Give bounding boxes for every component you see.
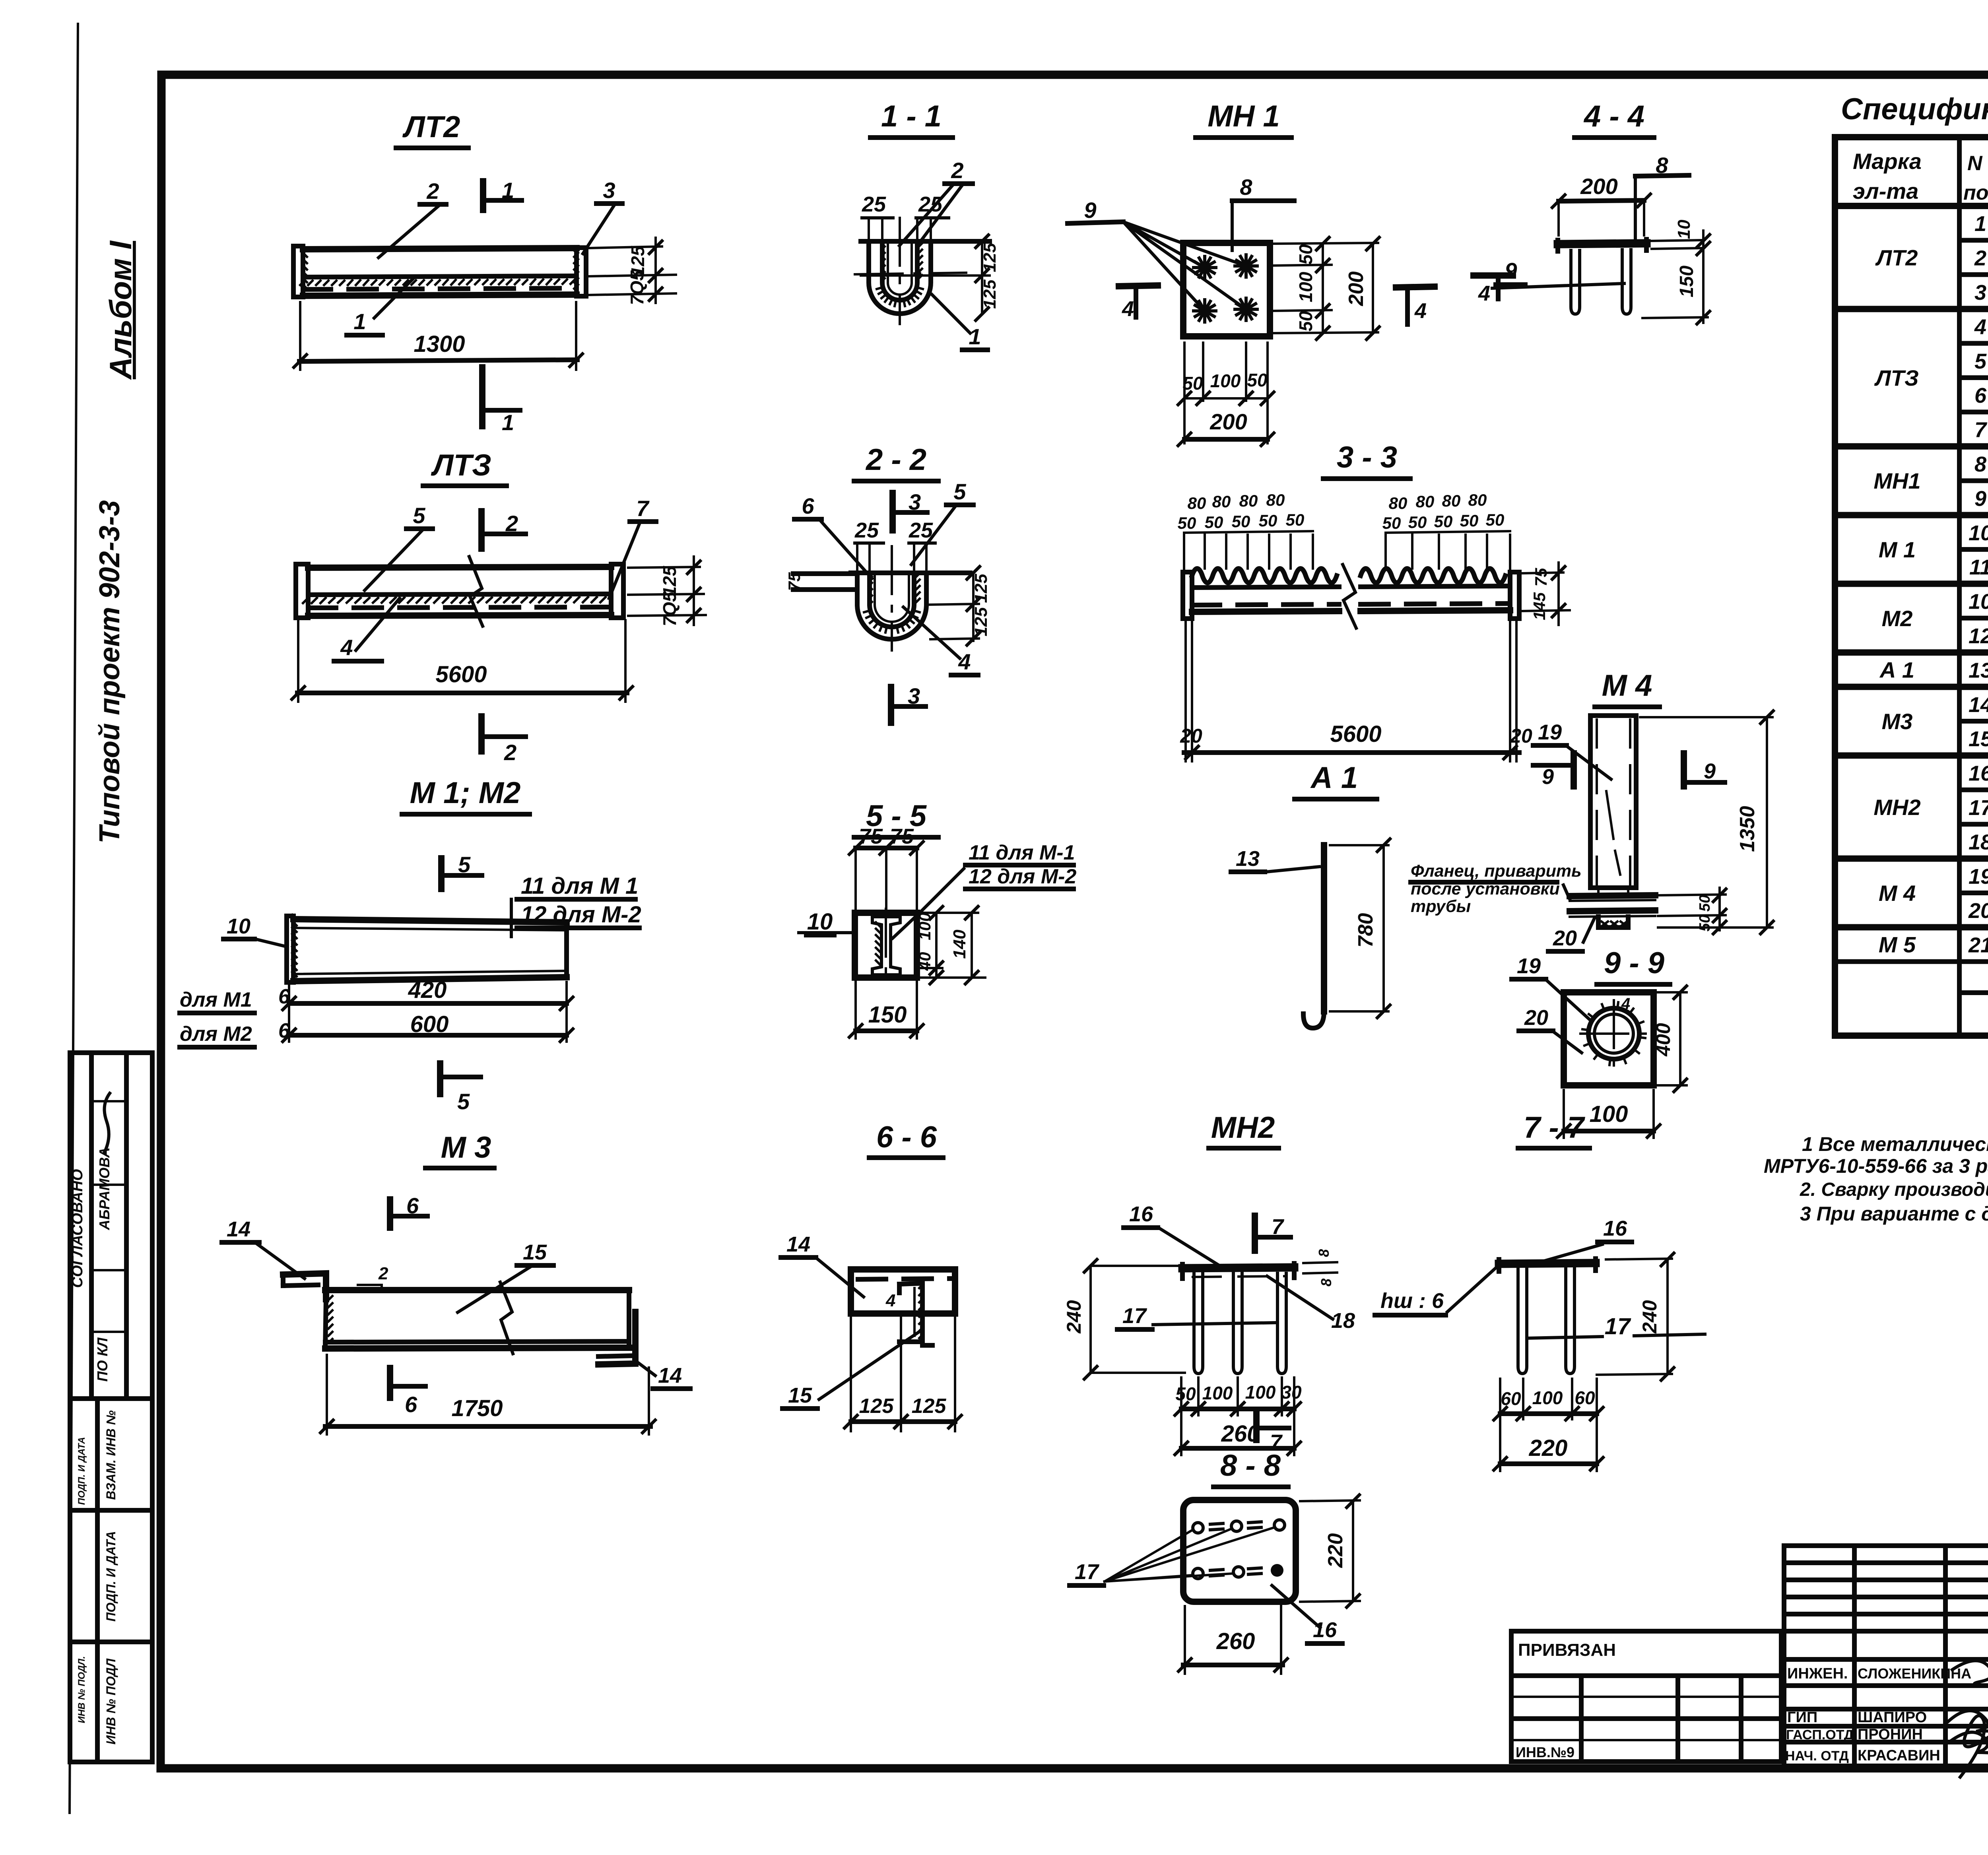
svg-text:50: 50: [1295, 311, 1316, 332]
svg-text:25: 25: [854, 518, 879, 542]
svg-text:М 1: М 1: [1879, 537, 1916, 562]
svg-text:20: 20: [1968, 899, 1988, 923]
8-8 right dim 220: [1300, 1500, 1360, 1501]
svg-text:2: 2: [505, 511, 518, 536]
LT2 right dim 125 / 72,5: [588, 246, 662, 248]
svg-text:поз.: поз.: [1963, 181, 1988, 204]
svg-text:17: 17: [1969, 796, 1988, 820]
svg-text:50: 50: [1408, 513, 1427, 532]
svg-text:1 Все металлические марки кро: 1 Все металлические марки кроме МН1,МН2,…: [1802, 1133, 1988, 1155]
svg-text:400: 400: [1652, 1023, 1674, 1057]
svg-text:50: 50: [1434, 512, 1453, 531]
svg-text:ШАПИРО: ШАПИРО: [1858, 1709, 1927, 1726]
svg-text:100: 100: [1532, 1387, 1563, 1408]
svg-text:Фланец, приварить: Фланец, приварить: [1411, 862, 1582, 881]
spec table column lines: [1957, 137, 1962, 1036]
svg-text:для М1: для М1: [180, 988, 252, 1011]
5-5 plate: [855, 913, 917, 978]
svg-text:50: 50: [1460, 511, 1479, 530]
svg-text:7: 7: [1272, 1215, 1285, 1239]
2-2 section mark 3 top: [889, 493, 896, 530]
svg-text:2: 2: [504, 740, 516, 765]
svg-text:14: 14: [786, 1232, 810, 1256]
svg-text:4: 4: [885, 1291, 895, 1310]
svg-text:13: 13: [1236, 847, 1260, 871]
svg-text:80: 80: [1212, 492, 1231, 511]
svg-text:1750: 1750: [451, 1395, 503, 1421]
MN1 right dims 50 100 50 / 200: [1272, 243, 1378, 244]
svg-text:3 - 3: 3 - 3: [1337, 440, 1397, 474]
svg-text:80: 80: [1188, 494, 1206, 512]
svg-text:16: 16: [1313, 1618, 1337, 1642]
svg-text:240: 240: [1639, 1300, 1661, 1334]
svg-text:МН1: МН1: [1873, 468, 1920, 493]
LT2 section mark 1 top: [480, 181, 486, 210]
svg-text:21: 21: [1968, 933, 1988, 957]
svg-text:ЛТ2: ЛТ2: [1875, 245, 1918, 270]
signatures squiggles: [1952, 1661, 1988, 1686]
svg-text:8: 8: [1240, 175, 1252, 200]
7-7 legs: [1518, 1268, 1527, 1374]
privyazan block: [1511, 1631, 1781, 1762]
svg-text:4: 4: [1478, 281, 1490, 305]
svg-text:ПОДП. И ДАТА: ПОДП. И ДАТА: [76, 1437, 87, 1505]
svg-text:3 При варианте с доочисткой п: 3 При варианте с доочисткой поз.7, 8 ЛТЗ…: [1800, 1203, 1988, 1225]
7-7 dim 220: [1500, 1461, 1597, 1466]
svg-text:ПО КЛ: ПО КЛ: [94, 1337, 111, 1382]
svg-text:12 для М-2: 12 для М-2: [969, 865, 1076, 888]
LT2 section mark 1 bottom: [479, 367, 485, 426]
svg-text:3: 3: [603, 178, 615, 203]
svg-text:100: 100: [1590, 1101, 1628, 1127]
svg-text:1: 1: [502, 178, 514, 203]
M3 break mark: [500, 1282, 513, 1354]
svg-text:6: 6: [405, 1392, 417, 1417]
MN2 weld dims 8/8: [1303, 1262, 1337, 1263]
svg-text:260: 260: [1216, 1628, 1255, 1654]
svg-text:1: 1: [969, 324, 981, 349]
svg-text:3: 3: [908, 683, 920, 708]
svg-text:50: 50: [1295, 244, 1316, 265]
LT3 dim 5600: [297, 620, 299, 702]
svg-text:20: 20: [1510, 725, 1532, 747]
svg-text:1: 1: [1974, 212, 1986, 236]
svg-text:2: 2: [951, 158, 963, 183]
1-1 centerline: [899, 218, 901, 324]
svg-text:ГИП: ГИП: [1787, 1709, 1817, 1726]
spec table thin row lines: [1959, 238, 1988, 243]
svg-text:9: 9: [1542, 765, 1554, 789]
svg-text:МН2: МН2: [1211, 1111, 1275, 1145]
svg-text:А 1: А 1: [1879, 657, 1914, 682]
svg-text:80: 80: [1239, 491, 1258, 510]
svg-text:1: 1: [502, 410, 514, 435]
svg-text:5600: 5600: [1330, 721, 1381, 747]
svg-text:9: 9: [1704, 759, 1716, 783]
svg-text:19: 19: [1969, 865, 1988, 889]
svg-text:125: 125: [971, 574, 991, 603]
svg-text:17: 17: [1122, 1304, 1147, 1328]
svg-text:3: 3: [909, 489, 921, 514]
svg-text:Спецификация металла на 1 шт: Спецификация металла на 1 шт. каждой мар…: [1841, 92, 1988, 126]
svg-text:ПРОНИН: ПРОНИН: [1858, 1726, 1923, 1743]
svg-text:50: 50: [1175, 1383, 1196, 1404]
svg-text:40: 40: [915, 952, 934, 971]
svg-text:8 - 8: 8 - 8: [1220, 1449, 1281, 1482]
svg-text:200: 200: [1345, 272, 1368, 307]
svg-text:5: 5: [458, 852, 471, 877]
5-5 dim 150: [854, 980, 857, 1038]
svg-text:12: 12: [1969, 624, 1988, 648]
svg-text:М 4: М 4: [1602, 669, 1652, 702]
3-3 top tick lines left group: [1183, 535, 1185, 569]
svg-text:19: 19: [1517, 954, 1541, 978]
svg-text:125: 125: [980, 243, 1000, 272]
svg-text:8: 8: [1316, 1249, 1332, 1257]
svg-text:6: 6: [802, 493, 814, 518]
MN2 anchor legs: [1194, 1273, 1203, 1374]
svg-text:9: 9: [1505, 258, 1517, 283]
M4 flange: [1570, 895, 1655, 896]
svg-text:КРАСАВИН: КРАСАВИН: [1858, 1747, 1940, 1764]
svg-text:125: 125: [859, 1395, 894, 1418]
9-9 right dim 400: [1658, 991, 1687, 993]
svg-text:50: 50: [1205, 513, 1223, 532]
2-2 section mark 3 bottom: [888, 687, 894, 723]
svg-text:6: 6: [278, 1019, 290, 1042]
svg-text:14: 14: [1969, 693, 1988, 717]
svg-text:60: 60: [1501, 1388, 1521, 1409]
svg-text:20: 20: [1180, 725, 1202, 747]
M4 section mark 9 left: [1533, 763, 1574, 768]
M4 pipe: [1590, 716, 1636, 888]
svg-text:МН2: МН2: [1873, 795, 1920, 820]
title block signature columns: [1784, 1546, 1988, 1766]
svg-text:100: 100: [1210, 371, 1241, 391]
svg-text:9 - 9: 9 - 9: [1604, 946, 1664, 980]
4-4 T shape plate: [1558, 243, 1646, 244]
svg-text:М 4: М 4: [1879, 881, 1916, 906]
M3 dim 1750: [326, 1355, 328, 1434]
svg-text:80: 80: [1416, 492, 1435, 511]
spec table group separator lines: [1835, 306, 1988, 312]
svg-text:100: 100: [1245, 1382, 1276, 1403]
svg-text:5: 5: [413, 503, 425, 528]
svg-text:Марка: Марка: [1853, 149, 1922, 174]
MN2 dim 240 left: [1091, 1265, 1182, 1267]
svg-text:6: 6: [406, 1193, 419, 1218]
svg-text:50: 50: [1486, 510, 1505, 529]
svg-text:50: 50: [1382, 514, 1401, 532]
A1 dim 780: [1330, 844, 1388, 846]
LT2 dim 1300: [299, 302, 301, 370]
svg-text:после установки: после установки: [1411, 879, 1560, 898]
svg-text:4: 4: [340, 635, 353, 660]
svg-text:11: 11: [1969, 555, 1988, 579]
MN1 section mark 4 right: [1396, 287, 1435, 287]
svg-text:ЛТЗ: ЛТЗ: [431, 448, 491, 482]
MN2 bottom dims 50 100 100 30: [1180, 1378, 1182, 1455]
8-8 holes row 2: [1193, 1568, 1203, 1579]
svg-text:Типовой проект 902-3-3: Типовой проект 902-3-3: [94, 500, 126, 844]
svg-text:18: 18: [1969, 830, 1988, 854]
svg-text:240: 240: [1063, 1300, 1085, 1334]
svg-text:200: 200: [1580, 174, 1617, 199]
1-1 right dims: [981, 241, 983, 314]
svg-text:ИНВ.№9: ИНВ.№9: [1516, 1744, 1574, 1760]
svg-text:15: 15: [788, 1383, 812, 1407]
1-1 channel U cross-section: [869, 241, 931, 314]
svg-text:10: 10: [807, 909, 833, 935]
MN1 plate: [1183, 243, 1270, 336]
svg-text:ПРИВЯЗАН: ПРИВЯЗАН: [1518, 1640, 1616, 1660]
3-3 corrugated bar: [1183, 572, 1192, 619]
svg-text:8: 8: [1974, 452, 1986, 476]
svg-text:200: 200: [1209, 409, 1247, 434]
svg-text:220: 220: [1529, 1435, 1568, 1461]
svg-text:1 - 1: 1 - 1: [881, 99, 942, 133]
svg-text:220: 220: [1324, 1533, 1347, 1568]
svg-text:80: 80: [1389, 494, 1408, 512]
3-3 top tick lines right group: [1384, 535, 1387, 569]
svg-text:420: 420: [408, 977, 447, 1003]
svg-text:13: 13: [1969, 658, 1988, 682]
LT2 bar: pipe with flats: [293, 246, 303, 297]
MN2 section mark 7 bottom: [1253, 1414, 1260, 1440]
M4 small dims 50 50: [1658, 895, 1726, 895]
svg-text:20: 20: [1553, 926, 1577, 950]
svg-text:2 - 2: 2 - 2: [865, 443, 926, 477]
3-3 right dims 75/145: [1523, 572, 1563, 573]
svg-text:2. Сварку производить электрод: 2. Сварку производить электродами типа Э…: [1800, 1179, 1988, 1200]
svg-text:ЛТ2: ЛТ2: [402, 110, 460, 144]
4-4 section mark 4 left: [1474, 272, 1513, 279]
svg-text:5: 5: [953, 479, 966, 504]
svg-text:50: 50: [1697, 895, 1713, 912]
svg-text:2: 2: [378, 1264, 388, 1283]
svg-text:50: 50: [1178, 514, 1196, 532]
5-5 I-beam section: [872, 917, 900, 975]
M1M2 section mark 5 top: [438, 858, 445, 889]
9-9 square plate: [1564, 992, 1654, 1085]
svg-text:ИНВ № ПОДЛ.: ИНВ № ПОДЛ.: [76, 1656, 87, 1723]
3-3 break mark: [1343, 565, 1356, 628]
MN1 bottom dims 50 100 50 / 200: [1183, 343, 1186, 443]
7-7 bottom dims 60 100 60: [1499, 1379, 1501, 1471]
M3 channel with end angles: [283, 1273, 326, 1299]
svg-text:15: 15: [1969, 727, 1988, 751]
8-8 holes row 1: [1193, 1523, 1203, 1533]
svg-text:125: 125: [971, 607, 991, 636]
svg-text:1350: 1350: [1736, 806, 1759, 852]
MN1 section mark 4 left: [1119, 285, 1158, 286]
svg-text:60: 60: [1574, 1387, 1595, 1408]
svg-text:19: 19: [1538, 720, 1562, 744]
svg-text:9: 9: [1084, 198, 1096, 223]
MN1 anchor bursts: [1194, 256, 1216, 279]
9-9 dim 100: [1563, 1090, 1565, 1138]
svg-text:25: 25: [862, 192, 886, 216]
svg-text:7Q5: 7Q5: [627, 270, 647, 305]
svg-text:А 1: А 1: [1310, 761, 1358, 795]
svg-text:780: 780: [1354, 913, 1377, 948]
svg-text:N: N: [1967, 152, 1983, 175]
svg-text:2: 2: [426, 179, 439, 204]
svg-text:6: 6: [278, 985, 290, 1008]
svg-text:600: 600: [410, 1011, 449, 1037]
svg-text:НАЧ. ОТД: НАЧ. ОТД: [1785, 1748, 1849, 1764]
svg-text:150: 150: [868, 1002, 907, 1028]
svg-text:1300: 1300: [414, 331, 465, 357]
approval stamp table (bottom left margin): [70, 1053, 152, 1762]
LT3 section mark 2 top: [478, 511, 485, 549]
svg-text:6: 6: [1974, 384, 1987, 407]
svg-text:СОГЛАСОВАНО: СОГЛАСОВАНО: [69, 1169, 86, 1288]
svg-text:МРТУ6-10-559-66 за 3 раза; М: МРТУ6-10-559-66 за 3 раза; М 5,МН1 и МН2…: [1764, 1155, 1988, 1177]
svg-text:80: 80: [1442, 491, 1461, 510]
svg-text:30: 30: [1281, 1382, 1302, 1403]
svg-text:10: 10: [1674, 219, 1694, 239]
svg-text:17: 17: [1075, 1560, 1100, 1584]
M3 section mark 6 bottom: [387, 1368, 393, 1398]
svg-text:100: 100: [915, 912, 934, 940]
svg-text:25: 25: [909, 518, 933, 542]
svg-text:50: 50: [1259, 511, 1277, 530]
svg-text:17: 17: [1605, 1314, 1631, 1339]
svg-text:М 3: М 3: [441, 1131, 491, 1164]
svg-text:16: 16: [1969, 762, 1988, 786]
svg-text:8: 8: [1318, 1279, 1334, 1286]
svg-text:7: 7: [1974, 418, 1988, 442]
6-6 plate: [851, 1269, 955, 1314]
M4 right dim 1350: [1640, 716, 1773, 718]
svg-text:150: 150: [1676, 266, 1697, 297]
svg-text:Альбом I: Альбом I: [103, 241, 138, 380]
svg-text:18: 18: [1331, 1309, 1355, 1333]
2-2 centerline: [891, 546, 893, 650]
svg-text:3: 3: [1974, 281, 1986, 305]
svg-text:75: 75: [890, 825, 914, 848]
6-6 dims 125 125: [850, 1318, 852, 1431]
svg-text:5: 5: [457, 1089, 470, 1114]
svg-text:50: 50: [1697, 915, 1713, 931]
svg-text:5: 5: [1974, 349, 1987, 373]
svg-text:7Q5: 7Q5: [659, 591, 680, 626]
svg-text:2: 2: [1974, 246, 1986, 270]
svg-text:АБРАМОВА: АБРАМОВА: [96, 1147, 113, 1230]
svg-text:М2: М2: [1882, 606, 1913, 631]
svg-text:МН 1: МН 1: [1208, 99, 1280, 133]
svg-text:75: 75: [1532, 568, 1550, 586]
svg-text:50: 50: [1232, 512, 1250, 531]
svg-text:ИНВ № ПОДЛ: ИНВ № ПОДЛ: [104, 1658, 118, 1744]
9-9 pipe circle: [1588, 1008, 1639, 1059]
svg-text:100: 100: [1295, 272, 1316, 302]
M1M2 channel bar: [287, 916, 293, 982]
svg-text:9: 9: [1974, 487, 1986, 510]
8-8 plate: [1183, 1500, 1296, 1602]
svg-text:ПОДП. И ДАТА: ПОДП. И ДАТА: [104, 1531, 118, 1622]
4-4 right dims 10 / 150: [1652, 240, 1702, 241]
svg-text:4: 4: [1974, 315, 1986, 339]
svg-text:14: 14: [658, 1364, 682, 1387]
svg-text:11 для М 1: 11 для М 1: [521, 873, 638, 899]
LT3 right dim: [628, 567, 700, 568]
LT3 section mark 2 bottom: [478, 716, 485, 751]
svg-text:11 для М-1: 11 для М-1: [969, 841, 1075, 864]
svg-text:75: 75: [785, 572, 804, 591]
4-4 legs: [1571, 250, 1580, 314]
svg-text:100: 100: [1202, 1383, 1233, 1403]
svg-text:трубы: трубы: [1411, 897, 1471, 916]
MN2 top plate: [1182, 1267, 1294, 1268]
svg-text:80: 80: [1468, 491, 1487, 509]
svg-text:4 - 4: 4 - 4: [1583, 99, 1644, 133]
M1M2 section mark 5 bottom: [437, 1063, 443, 1094]
LT3 bar: [296, 564, 308, 618]
8-8 dim 260: [1184, 1606, 1186, 1674]
svg-text:14: 14: [227, 1217, 250, 1241]
2-2 right dims: [929, 604, 979, 605]
A1 rod with hook: [1321, 845, 1327, 1011]
3-3 dim 5600: [1184, 620, 1187, 761]
svg-text:16: 16: [1603, 1217, 1627, 1240]
2-2 channel U with plate: [857, 573, 926, 639]
svg-text:1: 1: [353, 309, 366, 334]
M4 section mark 9 right: [1681, 753, 1687, 786]
spec table header lines: [1835, 203, 1988, 209]
svg-text:50: 50: [1286, 510, 1305, 529]
svg-text:эл-та: эл-та: [1853, 179, 1918, 204]
svg-text:10: 10: [1969, 521, 1988, 545]
svg-text:4: 4: [1621, 995, 1630, 1013]
svg-text:ГАСП.ОТД: ГАСП.ОТД: [1786, 1727, 1854, 1742]
svg-text:6 - 6: 6 - 6: [876, 1120, 937, 1154]
svg-text:80: 80: [1266, 491, 1285, 509]
2-2 left plate 75: [793, 571, 857, 576]
svg-text:10: 10: [1969, 590, 1988, 614]
LT3 break mark: [469, 557, 483, 626]
svg-text:ЛТЗ: ЛТЗ: [1874, 365, 1919, 390]
7-7 right dim 240: [1606, 1259, 1672, 1259]
svg-text:50: 50: [1247, 370, 1268, 390]
svg-text:для М2: для М2: [180, 1023, 252, 1046]
svg-text:125: 125: [980, 279, 1000, 309]
M1M2 dim 420 (dlya M1): [288, 986, 290, 1042]
svg-text:25: 25: [918, 192, 943, 216]
svg-text:7 - 7: 7 - 7: [1524, 1111, 1586, 1145]
svg-text:260: 260: [1221, 1421, 1260, 1447]
svg-text:16: 16: [1129, 1202, 1153, 1226]
svg-text:hш : 6: hш : 6: [1380, 1289, 1444, 1313]
spec table outer border: [1835, 137, 1988, 1036]
5-5 centerline: [885, 909, 887, 984]
svg-text:7: 7: [636, 496, 650, 521]
5-5 right dims 100/40/140: [919, 912, 978, 914]
svg-text:4: 4: [1122, 297, 1134, 321]
M1M2 dim 600 (dlya M2): [289, 1033, 567, 1038]
svg-text:М 1; М2: М 1; М2: [410, 776, 521, 810]
7-7 plate: [1499, 1263, 1596, 1264]
svg-text:ИНЖЕН.: ИНЖЕН.: [1787, 1665, 1848, 1682]
svg-text:140: 140: [950, 929, 969, 959]
svg-text:125: 125: [912, 1395, 947, 1418]
svg-text:М 5: М 5: [1879, 932, 1916, 957]
svg-text:10: 10: [227, 914, 250, 938]
svg-text:145: 145: [1530, 592, 1549, 620]
svg-text:М3: М3: [1882, 709, 1913, 734]
svg-text:20: 20: [1524, 1006, 1548, 1030]
